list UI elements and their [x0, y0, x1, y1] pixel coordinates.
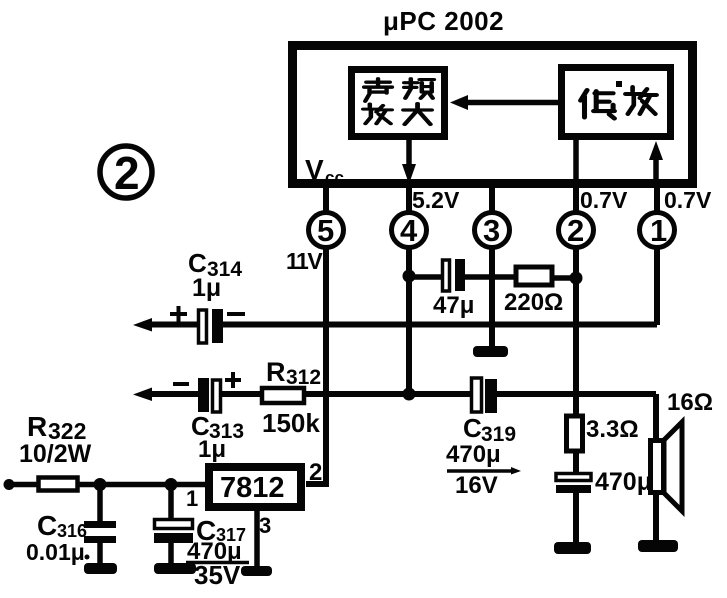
label 10/2W — [19, 440, 92, 468]
capacitor 470u (to ground) — [556, 474, 591, 494]
svg-text:μPC 2002: μPC 2002 — [383, 6, 504, 36]
wire: junction down to C316 — [97, 484, 103, 521]
wire: terminal to R322 — [9, 482, 38, 488]
svg-text:0.7V: 0.7V — [664, 187, 712, 213]
label 5.2V at pin 4 — [412, 187, 460, 213]
wire: pin 5 down to 7812 output — [306, 249, 326, 484]
pin label 3 of 7812 — [259, 513, 271, 538]
capacitor C319 (series in line to speaker) — [472, 378, 498, 413]
svg-text:4: 4 — [400, 213, 418, 248]
wire: 470u to ground — [573, 493, 579, 543]
label Vcc inside box — [305, 154, 344, 187]
wire: 47u to 220 ohm — [465, 274, 516, 280]
fraction line of C319 value — [447, 467, 521, 475]
capacitor 47u — [443, 259, 466, 291]
speaker — [651, 422, 683, 511]
label C319 — [463, 413, 516, 446]
svg-text:316: 316 — [57, 521, 87, 541]
ground under C317 — [154, 563, 196, 574]
wire: junction down to C317 — [168, 484, 174, 520]
svg-text:47μ: 47μ — [433, 292, 474, 319]
svg-text:2: 2 — [114, 147, 140, 199]
pin label 2 of 7812 — [309, 459, 322, 486]
svg-text:7812: 7812 — [220, 472, 285, 504]
node: junction at pin2 line — [570, 272, 583, 285]
svg-text:11V: 11V — [286, 248, 323, 274]
label 3.3 ohm — [586, 416, 639, 443]
ground under 470u — [554, 542, 591, 554]
node: junction pin4 line and input line — [403, 388, 416, 401]
svg-text:R: R — [266, 357, 286, 387]
wire: pin4 to 47u capacitor — [409, 274, 442, 280]
svg-text:220Ω: 220Ω — [504, 289, 563, 316]
node: junction at C316 — [94, 478, 107, 491]
svg-text:1μ: 1μ — [198, 436, 226, 463]
label 220 ohm — [504, 289, 563, 316]
resistor 3.3 ohm — [567, 416, 583, 451]
wire: C316 to ground — [97, 543, 103, 564]
svg-text:35V: 35V — [194, 560, 241, 590]
svg-text:1μ: 1μ — [192, 274, 221, 302]
label 1u under C313 — [198, 436, 226, 463]
wire: speaker to ground — [653, 493, 659, 542]
polarity marks of C313 — [173, 372, 241, 388]
ground under speaker — [638, 540, 678, 552]
node: junction at C317 — [165, 478, 178, 491]
label 150k — [262, 408, 320, 438]
svg-text:1: 1 — [186, 486, 198, 511]
capacitor C314 (series in feedback line) — [199, 309, 224, 343]
svg-text:0.01μ: 0.01μ — [26, 539, 85, 565]
node: junction on pin4 line at 47u tap — [403, 270, 416, 283]
label: Chinese characters sheng pin fang da — [363, 79, 434, 125]
label C316 — [37, 510, 87, 541]
block: low-level amplifier (di fang) box — [562, 68, 671, 137]
svg-text:3.3Ω: 3.3Ω — [586, 416, 639, 443]
pin 2 circle — [559, 213, 594, 248]
svg-text:C: C — [463, 413, 482, 443]
IC title uPC2002 — [383, 6, 504, 36]
ground at pin 3 — [473, 346, 508, 357]
svg-text:16Ω: 16Ω — [667, 389, 713, 416]
label 0.7V at pin 2 — [580, 187, 628, 213]
wire: 3.3 ohm to 470u cap — [573, 451, 579, 473]
svg-text:1: 1 — [650, 213, 667, 248]
pin label 1 of 7812 — [186, 486, 198, 511]
capacitor C316 — [84, 521, 116, 543]
svg-text:150k: 150k — [262, 408, 320, 438]
regulator 7812 — [209, 467, 301, 507]
ground under 7812 — [241, 566, 272, 576]
label 16 ohm — [667, 389, 713, 416]
pin stub wires from IC bottom to pin circles — [326, 186, 657, 212]
svg-text:16V: 16V — [455, 472, 498, 499]
wire: 7812 pin 3 to ground — [254, 511, 260, 567]
input terminal dot of supply line — [4, 479, 15, 490]
figure number circle 2 — [100, 146, 152, 198]
svg-text:470μ: 470μ — [595, 468, 652, 496]
label C314 — [188, 248, 242, 281]
capacitor C313 (series in input line) — [198, 378, 221, 412]
label 11V at pin 5 — [286, 248, 323, 274]
label C313 — [191, 411, 244, 443]
arrow from di fang to sheng pin fang da — [450, 95, 558, 110]
label 470u (right) — [595, 468, 652, 496]
wire: di fang block down to pin 1 with up arrow — [649, 141, 663, 184]
wire: feedback line y=326 with left arrow — [133, 318, 657, 332]
svg-text:0.7V: 0.7V — [580, 187, 628, 213]
label 0.7V at pin 1 — [664, 187, 712, 213]
wire: R322 to 7812 input — [78, 482, 206, 488]
fraction line of C317 value — [186, 561, 249, 565]
svg-text:312: 312 — [286, 366, 321, 389]
block: audio amplifier (sheng pin fang da) box — [352, 70, 445, 137]
wire: pin 4 down — [406, 249, 412, 395]
resistor R322 — [39, 478, 78, 491]
wire: pin 1 down to feedback line — [654, 249, 660, 325]
svg-text:5.2V: 5.2V — [412, 187, 460, 213]
label: Chinese characters di fang — [581, 81, 657, 118]
label 16V — [455, 472, 498, 499]
polarity marks of C314 — [170, 306, 245, 322]
svg-text:cc: cc — [325, 168, 344, 187]
label 470u of C317 — [187, 538, 242, 565]
wire: di fang block down to pin 2 — [573, 140, 579, 184]
wire: 220 ohm to pin2 line — [552, 275, 576, 281]
ground under C316 — [84, 563, 117, 574]
wire: pin 3 down to ground — [489, 249, 495, 347]
label R322 — [27, 411, 86, 444]
pin 5 circle — [309, 213, 344, 248]
svg-text:10/2W: 10/2W — [19, 440, 92, 468]
wire: pin 2 down to 3.3 ohm — [573, 249, 579, 418]
op-amp U1 uPC2002 outer box — [293, 46, 693, 184]
resistor 220 ohm — [516, 267, 552, 285]
pin 4 circle — [392, 213, 427, 248]
svg-text:3: 3 — [483, 213, 500, 248]
svg-text:5: 5 — [317, 213, 334, 248]
label 1u under C314 — [192, 274, 221, 302]
wire: amplifier block output down to pin 4 with arrow — [402, 140, 416, 184]
capacitor C317 — [154, 520, 193, 544]
wire: input line y=395 with left arrow — [133, 388, 656, 442]
label 35V — [194, 560, 241, 590]
svg-text:C: C — [37, 510, 57, 541]
resistor R312 — [262, 388, 304, 403]
label R312 — [266, 357, 321, 389]
label C317 — [196, 515, 246, 546]
label 0.01u — [26, 539, 90, 565]
svg-text:2: 2 — [309, 459, 322, 486]
svg-text:2: 2 — [567, 213, 584, 248]
svg-text:3: 3 — [259, 513, 271, 538]
label 470u — [446, 441, 501, 468]
svg-text:470μ: 470μ — [446, 441, 501, 468]
svg-text:V: V — [305, 154, 324, 185]
wire: C317 to ground — [168, 543, 174, 564]
pin 3 circle — [475, 213, 510, 248]
pin 1 circle — [640, 213, 675, 248]
label 47u — [433, 292, 474, 319]
svg-text:R: R — [27, 411, 47, 442]
